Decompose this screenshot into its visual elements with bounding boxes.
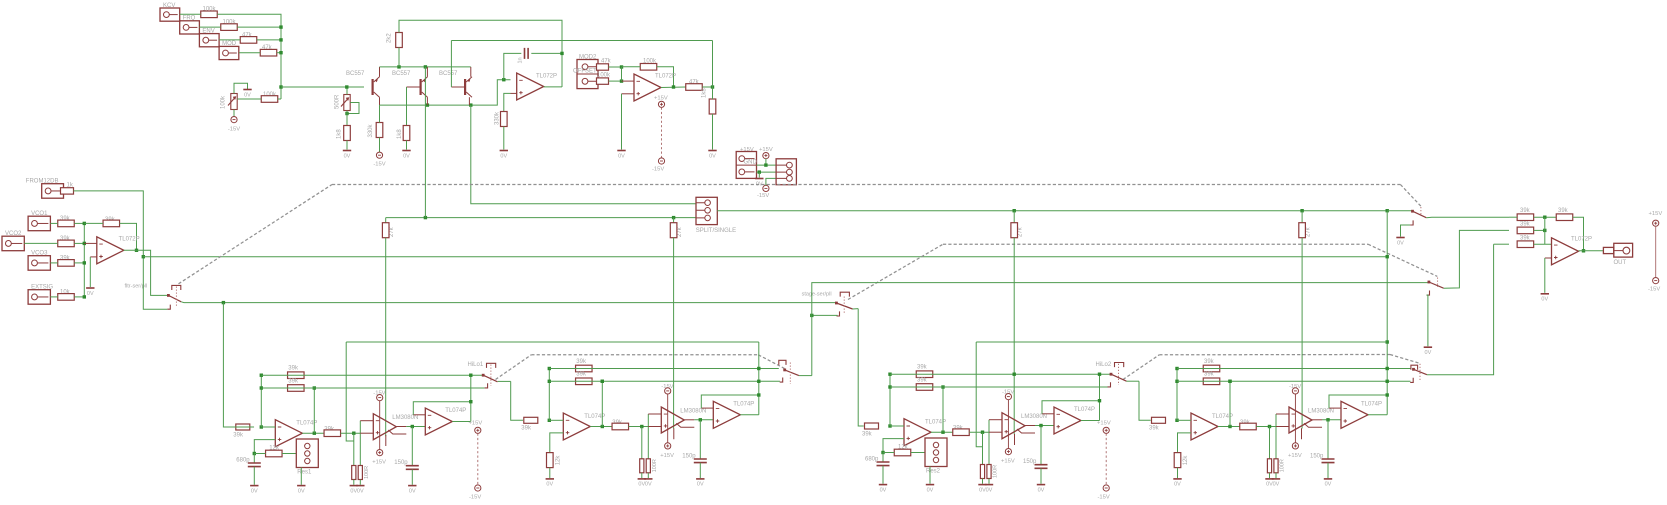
stage 1 row2 resistor 39k	[288, 385, 305, 392]
stage 4 wire buffer feedback loop	[1329, 395, 1387, 408]
stage 2 supply -15V (OTA)	[665, 388, 671, 394]
junction stage 4 loop	[1386, 393, 1389, 396]
supply -15V (half A)	[475, 485, 481, 491]
dashed linkage to output switch B	[1368, 244, 1437, 276]
supply rail half A	[477, 434, 479, 485]
stage 1 junction out/row2	[313, 432, 316, 435]
svg-text:39k: 39k	[576, 372, 587, 378]
wire power row GND	[757, 171, 777, 173]
transistor Q1 BC557	[372, 77, 380, 97]
wire 27k #2 top	[673, 218, 675, 223]
capacitor 1n	[525, 48, 529, 59]
junction stage 2 row2	[757, 380, 760, 383]
junction sum node to CV line	[279, 85, 282, 88]
svg-text:39k: 39k	[576, 359, 587, 365]
stage 2 junction out/row2	[601, 425, 604, 428]
stage 1 wire OTA + stub	[360, 432, 373, 434]
svg-text:39k: 39k	[1149, 426, 1160, 432]
resistor 1k (FROM12DB)	[61, 188, 74, 194]
svg-text:0V: 0V	[546, 482, 553, 488]
stage 2 supply +15V (OTA)	[665, 443, 671, 449]
switch output A lower contact	[1410, 220, 1413, 225]
stage 3 wire input to - pin	[890, 425, 904, 427]
resistor 47k (U2 out)	[686, 84, 703, 91]
wire feedback to U3 output	[120, 223, 137, 250]
stage 2 ground 0V (100R b)	[644, 478, 652, 480]
stage 4 ground 0V (100R b)	[1272, 478, 1280, 480]
stage 4 resistor 100R b	[1274, 459, 1278, 473]
junction 12dB select line / lower contact	[810, 314, 813, 317]
resistor 330k (U1 + to 0V)	[501, 112, 508, 127]
svg-text:0V: 0V	[1174, 482, 1181, 488]
wire HiLo1 arm to stage 2	[498, 380, 511, 382]
svg-text:Res1: Res1	[297, 470, 312, 476]
wire Q2 base to 1k8	[406, 87, 408, 126]
wire switch A to 39k	[1426, 216, 1509, 219]
svg-text:TL072P: TL072P	[536, 74, 557, 80]
junction CV line B / 27k	[1300, 209, 1303, 212]
stage 3 wire 680p to ground	[882, 466, 884, 484]
wire servo node to 1k8	[712, 87, 714, 99]
wire 1k8 to ground	[406, 141, 408, 150]
stage 1 wire 680p to ground	[253, 467, 255, 485]
stage 1 wire trimmer to ground	[300, 468, 302, 485]
dashed linkage HiLo2 pole 2	[1390, 355, 1420, 364]
stage 4 junction row2	[1228, 380, 1231, 383]
stage 1 wire 150p to ground	[411, 470, 413, 485]
stage 4 wire OTA - to 100R b	[1275, 414, 1277, 459]
svg-text:0V: 0V	[880, 487, 887, 493]
svg-text:100R: 100R	[993, 465, 999, 478]
wire CV line filter A	[386, 217, 696, 219]
stage 4 supply -15V (OTA)	[1292, 388, 1298, 394]
junction output sum	[1543, 216, 1546, 219]
connector power 3-pin	[776, 159, 796, 185]
stage 4 resistor 100R a	[1267, 459, 1271, 473]
wire output B contact to ground	[1427, 295, 1428, 346]
stage 1 wire buffer feedback loop	[413, 402, 471, 415]
stage 3 OTA LM3080N	[1002, 413, 1025, 439]
stage 1 wire buffer output	[452, 421, 471, 423]
wire U2 + to ground	[621, 94, 623, 150]
wire 27k #4 to OTA bias	[1301, 238, 1303, 429]
wire 330k to ground	[503, 127, 505, 150]
wire stage 1 input	[223, 303, 254, 427]
svg-text:BC557: BC557	[439, 71, 458, 77]
stage 3 wire OTA + stub	[989, 431, 1002, 433]
stage 4 wire OTA output	[1322, 419, 1341, 421]
wire Q1 collector up	[379, 67, 381, 77]
wire stage 2 row1	[549, 368, 779, 370]
supply +15V (half A)	[475, 427, 481, 433]
switch stage-ser/pll lower contact	[837, 311, 840, 316]
svg-text:TL074P: TL074P	[1074, 407, 1095, 413]
stage 1 resistor 100R b	[358, 466, 362, 480]
wire KCV to 100k	[180, 13, 201, 15]
wire CV line filter B	[717, 210, 1387, 212]
svg-text:+15V: +15V	[469, 421, 483, 427]
supply -15V (emitter)	[376, 152, 382, 158]
wire 47k to U2 inverting node	[609, 66, 622, 68]
wire stage 2 output vertical	[758, 342, 760, 415]
resistor 27k #3	[1011, 223, 1018, 238]
switch fltr-ser/pll lower contact	[167, 305, 170, 310]
wire feedback node to lower contact	[143, 257, 167, 310]
stage 3 OTA supply line	[1007, 400, 1009, 449]
junction stage 2 row2 / out	[601, 380, 604, 383]
wire U4 + to ground	[1544, 258, 1546, 293]
svg-text:0V: 0V	[1397, 240, 1404, 246]
wire 1n feedback left	[504, 53, 522, 79]
supply +15V (power)	[763, 153, 769, 159]
stage 1 buffer TL074P	[425, 408, 452, 435]
stage 3 wire OTA output	[1035, 425, 1054, 427]
wire 2k2 to rail	[398, 48, 400, 67]
svg-text:27k: 27k	[1306, 226, 1312, 237]
resistor 2k2	[396, 33, 403, 48]
wire U1 + to 330k	[504, 93, 511, 111]
svg-text:39k: 39k	[288, 378, 299, 384]
stage 2 ground 0V (150p)	[696, 478, 704, 480]
switch HiLo1 pole2 lower contact	[780, 378, 783, 383]
supply -15V (right)	[1653, 278, 1659, 284]
wire U2 + stub	[622, 93, 635, 95]
wire filter input line	[181, 301, 837, 304]
junction +15V row	[764, 163, 767, 166]
svg-text:-15V: -15V	[757, 193, 769, 199]
stage 3 wire op-amp out	[931, 431, 953, 433]
junction 2k2 / collector rail	[397, 65, 400, 68]
stage 4 wire + input to 12k	[1178, 433, 1192, 453]
trimmer 100k (CV offset)	[228, 94, 237, 110]
stage 4 row2 junction	[1175, 380, 1178, 383]
stage 2 buffer TL074P	[713, 401, 740, 428]
wire stage 1 output vertical	[470, 375, 472, 421]
svg-text:100R: 100R	[1280, 459, 1286, 472]
stage 1 ground 0V (680p)	[250, 485, 258, 487]
wire Q2 emitter down	[426, 97, 428, 105]
stage 4 OTA bias pin	[1302, 423, 1323, 439]
wire Q2 base stub	[407, 86, 420, 88]
stage 1 wire to 100R a	[353, 433, 355, 465]
stage 3 wire 150p to ground	[1040, 469, 1042, 484]
stage 2 input resistor 39k	[524, 417, 538, 423]
stage 4 ground 0V (12k)	[1173, 478, 1181, 480]
supply +15V (right)	[1653, 220, 1659, 226]
stage 4 wire 39k to OTA +	[1256, 426, 1276, 428]
svg-text:LM3080N: LM3080N	[1308, 409, 1334, 415]
stage 1 supply +15V (OTA)	[377, 450, 383, 456]
stage 3 op-amp TL074P	[904, 419, 931, 446]
wire 1k8 to ground	[346, 141, 348, 150]
wire 24dB line to output switch A	[1387, 210, 1412, 212]
supply rail U2	[661, 108, 663, 158]
stage 1 wire 100R b to ground	[359, 480, 361, 485]
stage 2 OTA supply line	[667, 394, 669, 443]
ground 0V (330k)	[500, 150, 508, 152]
stage 4 wire op-amp out	[1218, 426, 1240, 428]
stage 2 op-amp TL074P	[563, 413, 590, 440]
supply -15V (trimmer)	[231, 117, 237, 123]
stage 2 wire 12k to ground	[549, 468, 551, 479]
stage 3 resistor 12k	[894, 449, 911, 456]
wire Q3 base stub	[451, 86, 464, 88]
junction stage 3 row1 / 27k	[1013, 373, 1016, 376]
stage 2 resistor 100R b	[646, 459, 650, 473]
wire stage 4 input	[1139, 381, 1151, 420]
svg-text:TL074P: TL074P	[445, 408, 466, 414]
resistor 39k (out A)	[1517, 214, 1534, 221]
stage 4 wire OTA - stub	[1276, 413, 1289, 415]
svg-text:+15V: +15V	[1288, 453, 1302, 459]
switch output B linkage	[1437, 278, 1439, 288]
svg-text:+15V: +15V	[372, 460, 386, 466]
wire Q2 collector up	[426, 67, 428, 77]
stage 3 wire buffer output	[1081, 420, 1100, 422]
junction stage 3 loop	[1098, 399, 1101, 402]
svg-text:OFFSET: OFFSET	[573, 69, 597, 75]
stage 2 OTA bias pin	[674, 423, 695, 439]
stage 3 wire buffer feedback loop	[1042, 401, 1100, 414]
ground 0V (servo 1k8)	[708, 150, 716, 152]
wire collector rail	[380, 66, 471, 68]
wire 1n to U1 output	[531, 52, 562, 54]
junction U4 output	[1582, 249, 1585, 252]
connector FRQ	[180, 21, 200, 34]
wire feedback to node	[622, 66, 641, 68]
wire 27k #4 top	[1301, 211, 1303, 223]
svg-text:1k8: 1k8	[337, 129, 343, 139]
stage 3 ground 0V (100R a)	[978, 484, 986, 486]
stage 1 wire 12k to trimmer	[282, 453, 296, 455]
wire 27k #1 top	[385, 218, 387, 223]
wire to 39k A	[1509, 216, 1517, 218]
stage 2 ground 0V (100R a)	[638, 478, 646, 480]
stage 1 wire 100R a to ground	[353, 480, 355, 485]
stage 1 junction vertical	[260, 375, 262, 427]
stage 4 wire 100R b to ground	[1275, 473, 1277, 478]
stage 2 wire OTA - to 100R b	[647, 414, 649, 459]
junction mix node	[83, 261, 86, 264]
wire U2 - stub	[622, 80, 635, 82]
stage 4 row2 resistor 39k	[1203, 378, 1220, 385]
supply +15V (U2)	[658, 101, 664, 107]
stage 2 wire 39k to OTA +	[629, 426, 649, 428]
stage 4 op-amp TL074P	[1191, 413, 1218, 440]
switch HiLo2 pole2 top contact	[1411, 365, 1418, 370]
stage 1 OTA LM3080N	[373, 414, 396, 440]
wire 100k to sum vertical	[278, 98, 281, 100]
wire U4 output to OUT	[1579, 250, 1604, 252]
stage 2 wire buffer output	[740, 414, 759, 416]
wire servo node up to rail	[712, 41, 714, 88]
connector ENV	[199, 34, 219, 47]
wire 330k to -15V	[379, 138, 381, 153]
stage 2 wire + input to 12k	[550, 433, 564, 453]
svg-text:39k: 39k	[1204, 372, 1215, 378]
dashed bus HiLo1	[531, 354, 758, 356]
wire 27k #1 to OTA bias	[385, 238, 387, 437]
stage 1 op-amp TL074P	[275, 420, 302, 447]
switch HiLo1 pole2 linkage	[789, 363, 791, 385]
stage 1 resistor 39k to OTA	[324, 430, 341, 437]
stage 4 wire buffer - stub	[1329, 407, 1341, 409]
wire U1 + stub	[511, 92, 517, 94]
stage 3 row1 junction	[888, 373, 891, 376]
stage 2 resistor 39k to OTA	[612, 423, 629, 430]
stage 2 input junction	[548, 419, 551, 422]
wire output A contact to ground	[1401, 225, 1411, 237]
svg-text:LM3080N: LM3080N	[680, 409, 706, 415]
junction 24dB line / bus	[1386, 340, 1389, 343]
wire switch B to 39k	[1444, 230, 1509, 288]
stage 4 row1 junction	[1175, 367, 1178, 370]
wire -15V to power row	[766, 178, 776, 185]
wire GND row to 0V	[758, 172, 760, 177]
svg-text:-15V: -15V	[1098, 495, 1110, 501]
wire U2 output to 47k	[661, 86, 686, 89]
junction CV line / 500R	[345, 85, 348, 88]
resistor 330k (emitter to -15V)	[376, 123, 383, 138]
switch HiLo1 linkage	[490, 365, 492, 387]
stage 4 wire to 100R a	[1269, 427, 1271, 459]
svg-text:-15V: -15V	[652, 167, 664, 173]
wire 27k #3 top	[1013, 211, 1015, 223]
connector OUT	[1603, 243, 1632, 257]
svg-text:TL072P: TL072P	[119, 237, 140, 243]
wire stage 4 row1	[1177, 368, 1411, 370]
dashed linkage fltr-ser/pll	[179, 185, 333, 284]
switch HiLo2 pole2 linkage	[1419, 364, 1421, 380]
stage 4 junction OTA output	[1326, 418, 1329, 421]
stage 1 wire input to - pin	[261, 426, 275, 428]
wire emitter row to U1 inverting input	[380, 80, 511, 105]
wire 100k to sum	[237, 26, 281, 28]
stage 3 junction out/row2	[941, 431, 944, 434]
stage 2 wire to 100R a	[641, 427, 643, 459]
wire 12dB output line	[143, 256, 1387, 258]
wire 1k8 to ground	[712, 114, 714, 150]
resistor 100k (OFFSET)	[597, 78, 609, 84]
connector power 2-pin	[736, 152, 756, 179]
switch stage-ser/pll arm	[836, 303, 852, 309]
stage 3 wire 12k to trimmer	[911, 452, 925, 454]
ground 0V (switch B)	[1424, 346, 1432, 348]
svg-text:0V: 0V	[357, 488, 364, 494]
svg-text:-15V: -15V	[228, 127, 240, 133]
wire 500R wiper loop	[347, 103, 359, 114]
junction stage 2 loop	[757, 393, 760, 396]
wire Q3 collector up	[470, 67, 472, 77]
stage 1 OTA supply line	[379, 401, 381, 450]
svg-text:+15V: +15V	[660, 453, 674, 459]
svg-text:0V: 0V	[618, 153, 625, 159]
svg-text:330k: 330k	[495, 111, 501, 125]
stage 3 junction OTA input	[981, 431, 984, 434]
wire FROM12DB to feedback node	[74, 191, 144, 257]
stage 3 ground 0V (680p)	[879, 484, 887, 486]
wire mixer summing vertical	[83, 223, 85, 297]
wire Q1 emitter down	[379, 97, 381, 105]
stage 1 input resistor 39k	[236, 424, 250, 430]
stage 4 row1 resistor 39k	[1203, 365, 1220, 372]
resistor 39k (out B)	[1517, 227, 1534, 234]
svg-text:LM3080N: LM3080N	[1021, 414, 1047, 420]
svg-text:39k: 39k	[862, 431, 873, 437]
switch HiLo1 pole2 arm	[785, 370, 799, 376]
stage 3 wire to 12k	[883, 452, 894, 454]
connector MOD	[219, 46, 239, 59]
stage 3 wire + input	[883, 439, 904, 453]
dashed linkage stage-ser/pll	[848, 244, 943, 299]
wire bus A to stage 1 OTA node	[346, 342, 354, 441]
svg-text:GND: GND	[744, 160, 758, 166]
wire stage 2 input	[511, 381, 523, 420]
stage 1 wire to 680p	[253, 454, 255, 463]
resistor 27k #1	[382, 223, 389, 238]
wire 39k B to sum	[1534, 229, 1545, 231]
junction U2 output / feedback	[672, 85, 675, 88]
stage 1 resistor 12k	[266, 450, 283, 457]
wire 27k #2 to OTA bias	[673, 238, 675, 429]
switch HiLo1 top contact	[487, 363, 496, 368]
wire stage 4 row2	[1177, 380, 1411, 382]
svg-text:+15V: +15V	[1649, 211, 1663, 217]
svg-text:LM3080N: LM3080N	[392, 415, 418, 421]
junction U2 inverting node	[620, 79, 623, 82]
wire U1 output	[544, 86, 562, 88]
wire MOD to 47k	[239, 52, 260, 54]
junction filter input to stage 1	[222, 301, 225, 304]
stage 1 row1 resistor 39k	[288, 372, 305, 379]
switch output A linkage	[1420, 207, 1422, 216]
stage 1 ground 0V (100R a)	[350, 485, 358, 487]
resistor 39k (VCO3)	[58, 260, 75, 267]
stage 3 wire OTA - stub	[989, 419, 1002, 421]
resistor 100k (CV to expo)	[261, 96, 278, 103]
resistor body 47k	[240, 37, 257, 44]
svg-text:2k2: 2k2	[387, 33, 393, 43]
junction CV line B / 27k	[1013, 209, 1016, 212]
stage 4 wire input to - pin	[1177, 419, 1191, 421]
svg-text:0V: 0V	[1325, 482, 1332, 488]
stage 1 ground 0V (150p)	[408, 485, 416, 487]
svg-text:0V: 0V	[709, 153, 716, 159]
junction output sum	[1543, 229, 1546, 232]
svg-text:BC557: BC557	[392, 71, 411, 77]
ground 0V (U2 +)	[617, 150, 625, 152]
junction FROM12DB / signal line	[142, 255, 145, 258]
stage 4 wire out to row2	[1229, 381, 1231, 426]
wire 12dB select line	[812, 283, 1429, 376]
stage 4 capacitor 150p	[1322, 459, 1335, 463]
svg-text:-15V: -15V	[469, 495, 481, 501]
wire 2k2 top feedback rail to op-amp U1 output	[399, 20, 562, 87]
junction GND row	[758, 170, 761, 173]
switch output B arm	[1429, 282, 1444, 288]
stage 1 wire OTA - to 100R b	[359, 421, 361, 466]
stage 1 wire OTA output stub	[396, 426, 406, 428]
junction sum node	[279, 25, 282, 28]
stage 2 wire op-amp out	[590, 426, 612, 428]
resistor 27k #4	[1299, 223, 1306, 238]
stage 3 wire OTA - to 100R b	[988, 420, 990, 465]
ground 0V (U4 +)	[1541, 293, 1549, 295]
wire FRQ to 100k	[199, 26, 220, 28]
svg-text:SPLIT/SINGLE: SPLIT/SINGLE	[696, 228, 736, 234]
op-amp U1 TL072P	[517, 73, 544, 100]
junction mix node	[83, 222, 86, 225]
